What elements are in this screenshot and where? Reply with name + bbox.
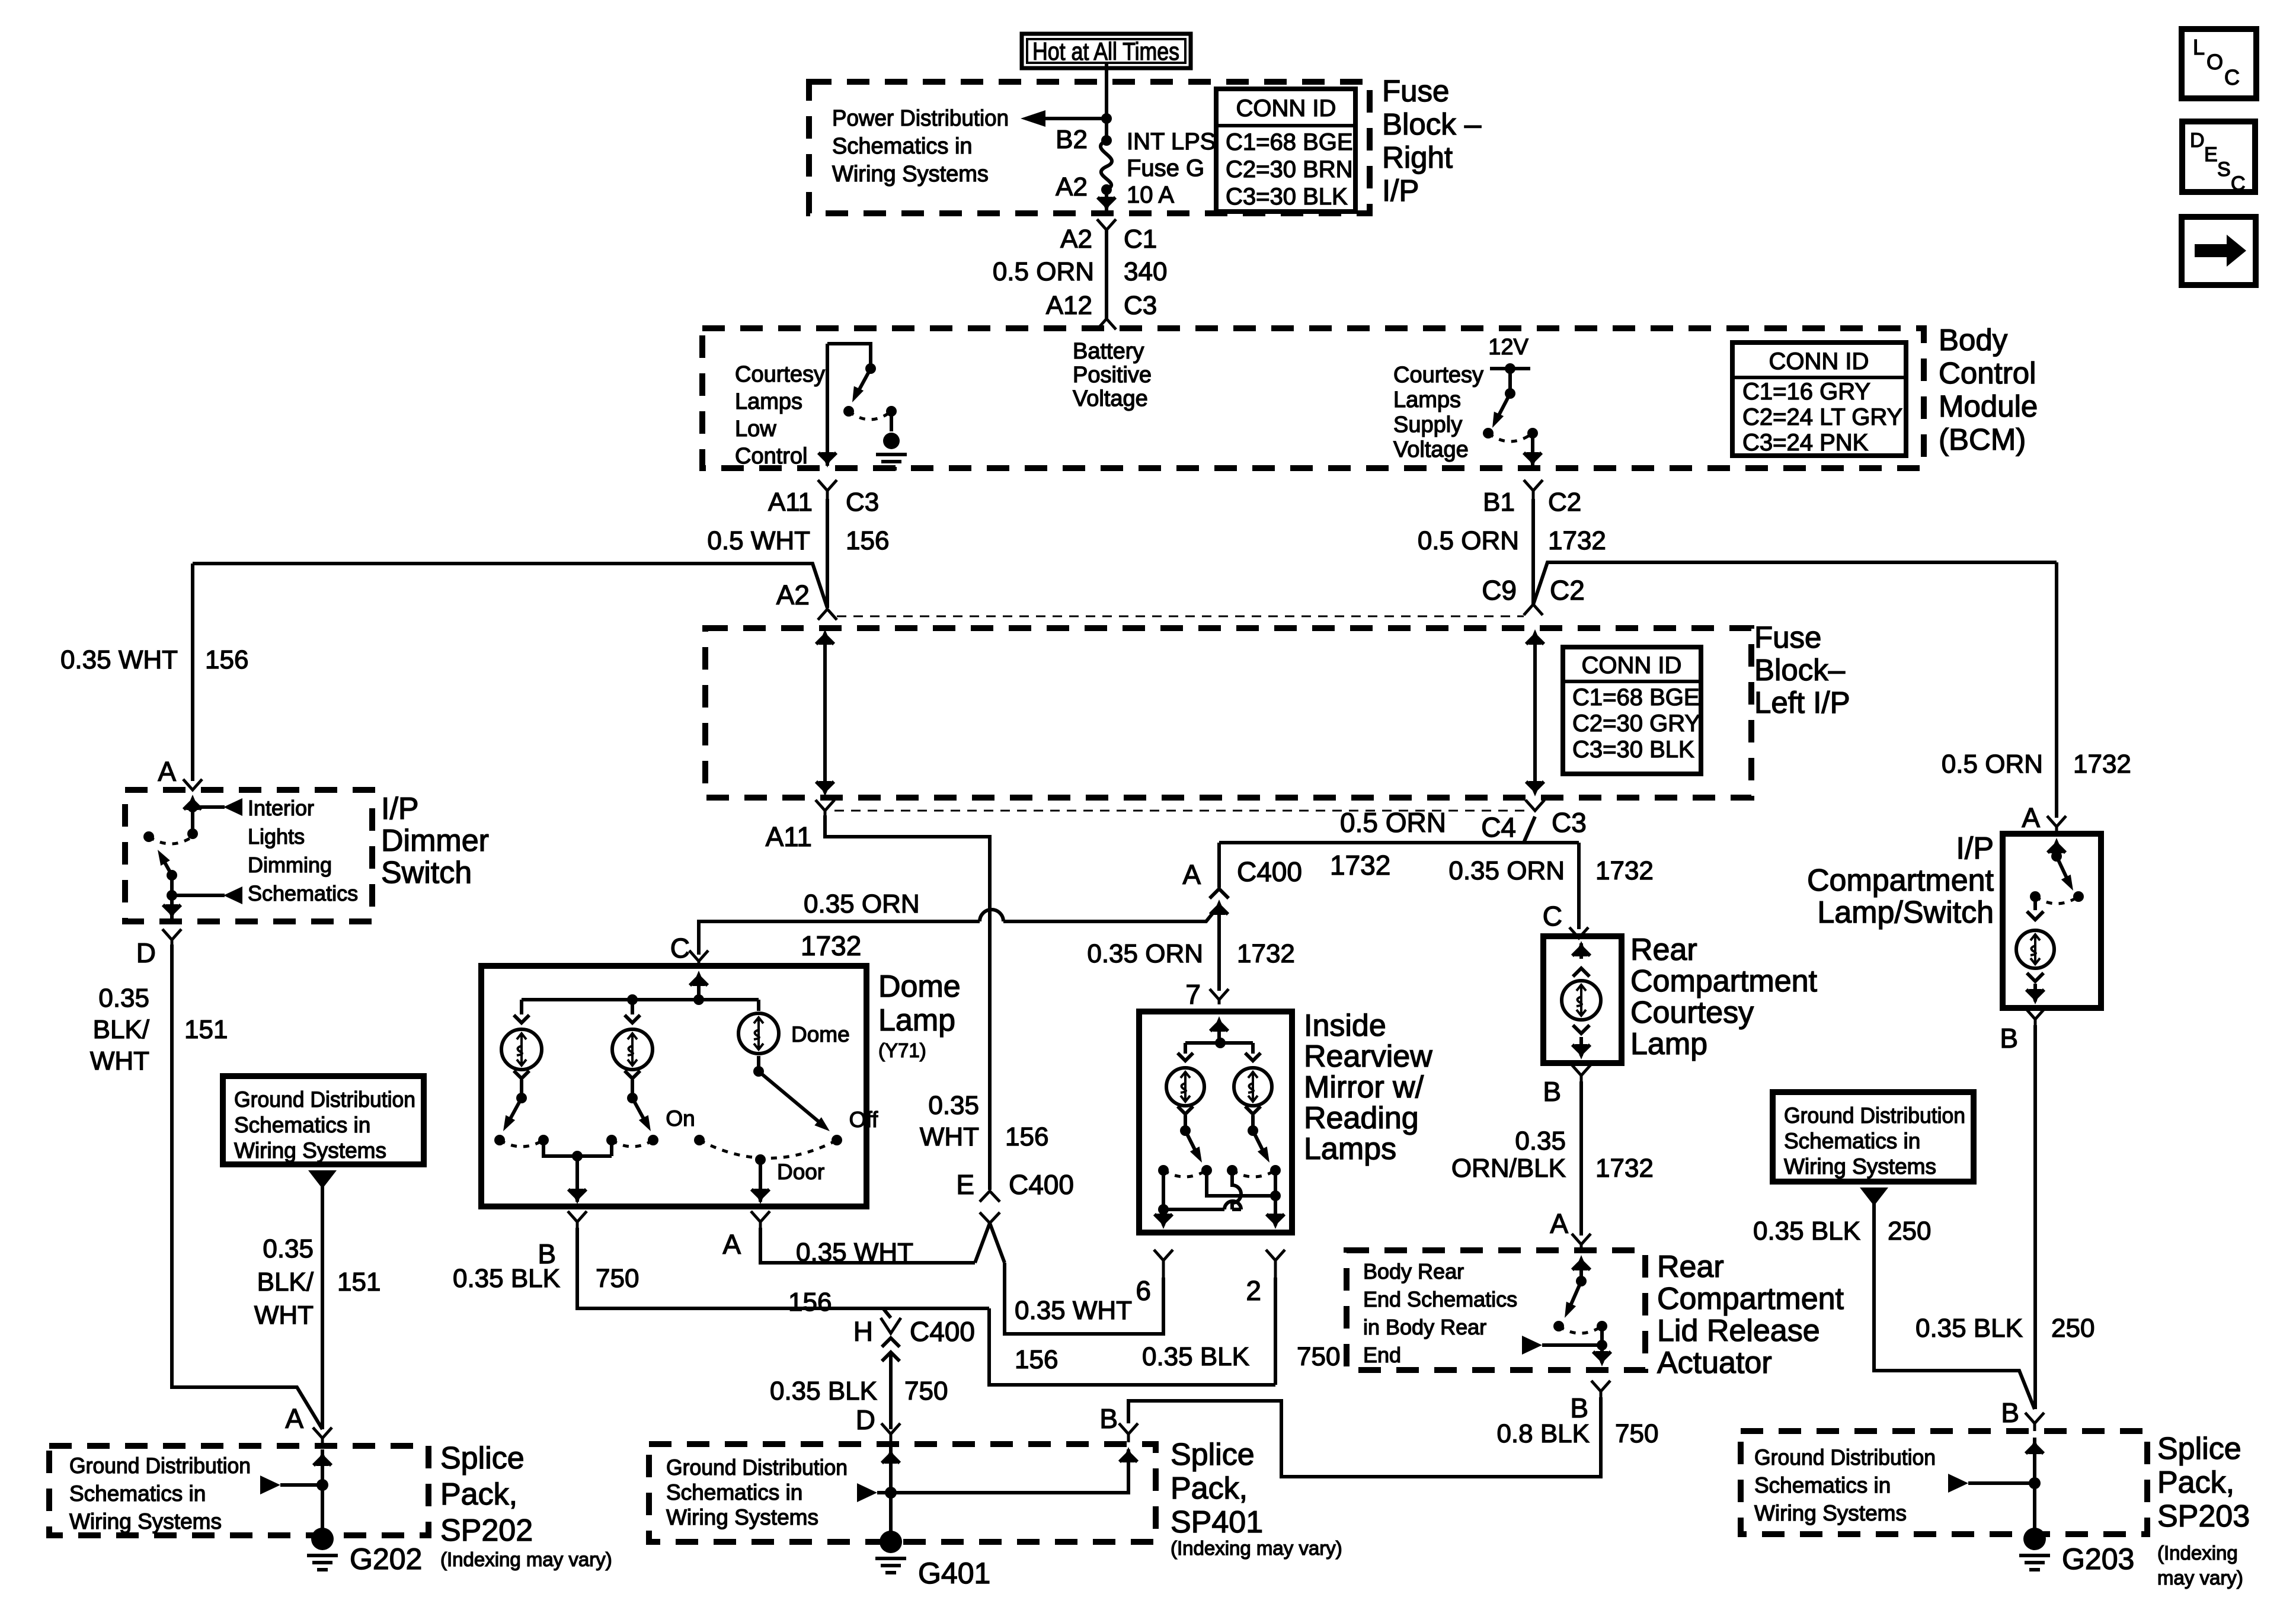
- connector: compartment lamp B (out): [2026, 1009, 2045, 1025]
- wire: 0.35 WHT 156 branch to dimmer switch: [193, 564, 827, 608]
- svg-text:Ground Distribution: Ground Distribution: [234, 1087, 415, 1112]
- svg-text:Fuse: Fuse: [1382, 74, 1449, 108]
- svg-text:Low: Low: [735, 417, 776, 441]
- svg-text:C1=16 GRY: C1=16 GRY: [1742, 379, 1870, 405]
- svg-text:1732: 1732: [1330, 850, 1390, 881]
- svg-text:Fuse G: Fuse G: [1127, 155, 1204, 181]
- svg-text:SP401: SP401: [1171, 1505, 1263, 1539]
- wire: to body rear end schematics (triangle): [1522, 1336, 1542, 1355]
- wire: 0.35 WHT to dome lamp A: [760, 1228, 975, 1263]
- wire: splice bus (SP203): [2033, 1438, 2036, 1536]
- svg-text:A2: A2: [1056, 172, 1088, 201]
- svg-text:Courtesy: Courtesy: [1630, 996, 1754, 1030]
- switch: lid release actuator switch: [1575, 1255, 1588, 1270]
- wire: splice bus: [321, 1449, 324, 1537]
- svg-text:Lights: Lights: [248, 824, 305, 849]
- svg-text:(BCM): (BCM): [1939, 422, 2026, 456]
- svg-text:750: 750: [1297, 1342, 1340, 1371]
- svg-text:Wiring Systems: Wiring Systems: [1784, 1154, 1936, 1179]
- svg-text:CONN ID: CONN ID: [1236, 95, 1336, 121]
- component box: Fuse Block - Left I/P: [705, 628, 1751, 798]
- svg-text:Courtesy: Courtesy: [735, 362, 825, 387]
- wire: dome lamp feed: [692, 971, 705, 986]
- wire: battery feed from Hot at All Times: [1105, 63, 1108, 140]
- component box: Fuse Block - Right I/P: [809, 82, 1370, 213]
- connector: BCM A11/C3 (out): [818, 480, 837, 499]
- svg-text:ORN/BLK: ORN/BLK: [1451, 1154, 1566, 1183]
- wire: 0.35 ORN 1732 to mirror pin 7: [1217, 843, 1221, 991]
- lamp: dome middle courtesy bulb: [631, 1000, 634, 1014]
- svg-text:B: B: [2001, 1397, 2019, 1428]
- svg-text:may vary): may vary): [2157, 1567, 2243, 1589]
- svg-text:Pack,: Pack,: [1171, 1471, 1248, 1506]
- svg-text:I/P: I/P: [1382, 174, 1419, 207]
- connector: mirror pin 7 (in): [1210, 989, 1229, 1004]
- svg-text:156: 156: [788, 1288, 832, 1317]
- component box: I/P Dimmer Switch: [125, 790, 372, 921]
- connector: fuse block left A2 (in): [818, 609, 837, 620]
- svg-text:Control: Control: [735, 444, 808, 469]
- svg-text:SP203: SP203: [2157, 1499, 2250, 1534]
- wire: pin 2 exit: [1274, 1170, 1277, 1225]
- component box: Body Control Module (BCM): [702, 328, 1924, 468]
- svg-text:SP202: SP202: [440, 1513, 533, 1548]
- svg-text:Positive: Positive: [1073, 363, 1152, 388]
- svg-text:Dimming: Dimming: [248, 853, 332, 877]
- svg-text:I/P: I/P: [381, 792, 419, 826]
- svg-text:750: 750: [1615, 1419, 1658, 1448]
- connector link dashed line (top): [837, 616, 1524, 617]
- svg-text:B: B: [1543, 1076, 1561, 1107]
- svg-text:C2=24 LT GRY: C2=24 LT GRY: [1742, 404, 1902, 430]
- wire: internal pass-through left (A2 to A11): [823, 635, 827, 792]
- svg-text:0.35: 0.35: [263, 1234, 314, 1263]
- wire: actuator ground exit: [1600, 1345, 1604, 1363]
- svg-text:750: 750: [904, 1377, 948, 1406]
- wire: internal pass-through right (C9 to C4): [1533, 635, 1537, 792]
- wire: pin 2 ground 0.35 BLK 750: [1274, 1278, 1277, 1385]
- wire: dimmer output: [170, 875, 174, 918]
- svg-text:156: 156: [1015, 1345, 1058, 1374]
- wire: dome internal bus: [522, 998, 759, 1001]
- switch: compartment lamp switch: [2050, 838, 2063, 853]
- connector: fuse block left C9/C2 (in): [1524, 604, 1543, 615]
- svg-text:C3: C3: [846, 488, 879, 517]
- svg-text:A: A: [2022, 802, 2040, 833]
- connector link dashed line (bottom): [834, 810, 1526, 812]
- svg-text:0.5 ORN: 0.5 ORN: [993, 257, 1094, 286]
- lamp: dome bulb: [757, 1000, 760, 1011]
- svg-text:CONN ID: CONN ID: [1582, 652, 1682, 678]
- svg-text:1732: 1732: [1595, 1154, 1654, 1183]
- component box: I/P Compartment Lamp/Switch: [2003, 834, 2101, 1008]
- svg-text:Schematics in: Schematics in: [666, 1480, 802, 1505]
- svg-text:Voltage: Voltage: [1073, 386, 1148, 411]
- svg-text:G203: G203: [2062, 1542, 2134, 1576]
- svg-text:G202: G202: [350, 1542, 422, 1576]
- connector: compartment lamp A (in): [2047, 816, 2066, 834]
- svg-text:Lamp: Lamp: [878, 1003, 955, 1038]
- svg-text:Splice: Splice: [1171, 1438, 1255, 1472]
- svg-text:0.35 BLK: 0.35 BLK: [770, 1377, 877, 1406]
- wire: ground ref to splice pack (0.35 BLK 250): [1860, 1188, 1888, 1206]
- svg-text:D: D: [2190, 129, 2205, 152]
- svg-text:0.35 WHT: 0.35 WHT: [60, 645, 178, 674]
- wire: 0.35 ORN/BLK 1732 to actuator A: [1579, 1081, 1583, 1235]
- svg-text:2: 2: [1246, 1275, 1261, 1306]
- svg-text:0.35 BLK: 0.35 BLK: [1916, 1314, 2023, 1343]
- svg-text:Rear: Rear: [1630, 933, 1697, 967]
- svg-text:Door: Door: [777, 1160, 824, 1184]
- svg-text:Mirror w/: Mirror w/: [1304, 1070, 1424, 1105]
- svg-text:C3=30 BLK: C3=30 BLK: [1226, 184, 1348, 210]
- svg-text:S: S: [2217, 158, 2231, 181]
- svg-text:Lamp: Lamp: [1630, 1027, 1707, 1061]
- svg-text:C4: C4: [1481, 812, 1516, 843]
- svg-text:End Schematics: End Schematics: [1363, 1287, 1517, 1311]
- svg-text:Left I/P: Left I/P: [1754, 686, 1850, 719]
- wire: other grounds (triangle SP401): [857, 1483, 877, 1502]
- svg-text:156: 156: [846, 526, 889, 555]
- connector: actuator B (out): [1591, 1381, 1610, 1397]
- svg-text:Fuse: Fuse: [1754, 620, 1821, 654]
- svg-text:Schematics in: Schematics in: [1754, 1473, 1891, 1497]
- svg-text:Pack,: Pack,: [2157, 1465, 2234, 1500]
- switch: courtesy lamps supply driver: [1490, 367, 1530, 370]
- wire: 0.35 BLK 250 to splice pack SP203: [2033, 1025, 2037, 1409]
- wire: other grounds (triangle): [260, 1475, 280, 1494]
- svg-text:C: C: [1543, 901, 1562, 932]
- component box: Splice Pack SP202: [49, 1446, 428, 1535]
- wire: contact1 to pin 6: [1162, 1170, 1165, 1209]
- label box: Hot at All Times: [1022, 34, 1191, 68]
- component box: Splice Pack SP401: [649, 1444, 1156, 1542]
- svg-text:in Body Rear: in Body Rear: [1363, 1315, 1486, 1339]
- connector: dimmer switch D (out): [162, 929, 181, 945]
- svg-text:A: A: [1550, 1208, 1568, 1239]
- svg-text:Hot at All Times: Hot at All Times: [1032, 37, 1179, 65]
- svg-text:E: E: [956, 1169, 974, 1200]
- svg-text:156: 156: [205, 645, 248, 674]
- svg-text:C3=24 PNK: C3=24 PNK: [1742, 430, 1869, 456]
- ground G401: [880, 1531, 902, 1553]
- svg-text:Interior: Interior: [248, 796, 314, 820]
- svg-text:340: 340: [1124, 257, 1167, 286]
- svg-text:A: A: [285, 1403, 303, 1434]
- svg-text:Reading: Reading: [1304, 1101, 1419, 1135]
- wire: to power distribution (arrow left): [1043, 117, 1107, 120]
- wire: 0.5 ORN 1732 down to fuse block left C9: [1531, 499, 1535, 604]
- svg-text:Ground Distribution: Ground Distribution: [69, 1454, 251, 1478]
- svg-text:Ground Distribution: Ground Distribution: [1784, 1103, 1965, 1128]
- legend box arrow: [2182, 217, 2256, 285]
- svg-text:A12: A12: [1046, 291, 1092, 320]
- svg-text:C400: C400: [910, 1316, 975, 1347]
- wire: 0.35 ORN 1732 to rear compartment lamp C: [1219, 817, 1579, 843]
- wire: 0.8 BLK 750 to splice pack B: [1128, 1397, 1601, 1477]
- label box: Ground Distribution Schematics in Wiring Systems (SP203): [1773, 1092, 1974, 1182]
- connector: dome lamp C (in): [689, 950, 708, 966]
- connector: BCM C1/C3 (in): [1097, 319, 1116, 329]
- svg-text:B: B: [1099, 1403, 1118, 1434]
- connector: fuse block left A11 (out): [816, 800, 834, 815]
- svg-text:A: A: [722, 1229, 741, 1260]
- component box: Inside Rearview Mirror w/ Reading Lamps: [1139, 1012, 1292, 1233]
- wire: 0.35 WHT 156 from fuse block A11: [825, 815, 990, 1190]
- svg-text:D: D: [856, 1404, 875, 1435]
- svg-text:(Indexing may vary): (Indexing may vary): [1171, 1537, 1342, 1559]
- wire: B leg up: [891, 1449, 1128, 1493]
- svg-text:Compartment: Compartment: [1657, 1282, 1844, 1316]
- svg-text:Splice: Splice: [440, 1441, 525, 1475]
- svg-text:G401: G401: [918, 1557, 990, 1590]
- svg-text:Actuator: Actuator: [1657, 1346, 1772, 1380]
- lamp: mirror right reading bulb: [1251, 1043, 1255, 1054]
- svg-text:156: 156: [1005, 1122, 1048, 1151]
- svg-text:C2: C2: [1550, 575, 1585, 606]
- wire: split to dome lamp A and mirror pin 6: [975, 1223, 1005, 1263]
- table: CONN ID (BCM): [1732, 343, 1906, 456]
- ground G203: [2023, 1528, 2046, 1550]
- svg-text:Voltage: Voltage: [1393, 437, 1469, 462]
- svg-text:Pack,: Pack,: [440, 1477, 517, 1512]
- svg-text:0.35 BLK: 0.35 BLK: [453, 1264, 560, 1293]
- svg-text:I/P: I/P: [1956, 831, 1994, 866]
- lamp: compartment bulb: [2033, 897, 2037, 910]
- svg-text:Block–: Block–: [1754, 653, 1846, 687]
- wire: fuse output arrow down: [1105, 190, 1108, 211]
- svg-text:A2: A2: [776, 580, 810, 610]
- svg-text:Lamps: Lamps: [735, 389, 802, 414]
- svg-text:Supply: Supply: [1393, 412, 1462, 437]
- svg-text:Wiring Systems: Wiring Systems: [234, 1138, 386, 1163]
- svg-text:0.35: 0.35: [98, 984, 149, 1013]
- table: CONN ID (fuse block right): [1216, 89, 1355, 212]
- table: CONN ID (fuse block left): [1563, 647, 1701, 774]
- wire: splice bus (SP401): [889, 1446, 893, 1542]
- svg-text:1732: 1732: [801, 930, 861, 961]
- connector: rear lamp B (out): [1572, 1065, 1591, 1081]
- ground: BCM internal: [883, 433, 900, 449]
- svg-text:0.35 WHT: 0.35 WHT: [1015, 1296, 1132, 1325]
- wire: other grounds (triangle SP203): [1948, 1474, 1968, 1493]
- connector: BCM B1/C2 (out): [1524, 480, 1543, 499]
- connector: mirror pin 2 (out): [1266, 1250, 1285, 1278]
- svg-text:C3: C3: [1124, 291, 1157, 320]
- svg-text:On: On: [666, 1106, 695, 1131]
- wire: pin 6 exit: [1162, 1209, 1165, 1225]
- switch: right reading lamp switch: [1253, 1131, 1266, 1157]
- wire: B return bus: [543, 1140, 612, 1156]
- wire: 0.35 ORN bus from dome lamp C: [699, 921, 980, 955]
- connector: dome lamp B (out): [568, 1211, 587, 1228]
- svg-text:0.5 ORN: 0.5 ORN: [1340, 807, 1446, 838]
- svg-text:0.5 ORN: 0.5 ORN: [1942, 750, 2043, 779]
- svg-text:C400: C400: [1237, 856, 1302, 887]
- svg-text:A2: A2: [1060, 225, 1092, 254]
- wire: door contact to A: [759, 1160, 762, 1202]
- svg-text:Wiring Systems: Wiring Systems: [69, 1509, 222, 1534]
- svg-text:Module: Module: [1939, 389, 2038, 423]
- svg-text:0.5 ORN: 0.5 ORN: [1418, 526, 1519, 555]
- svg-text:0.35 BLK: 0.35 BLK: [1142, 1342, 1249, 1371]
- svg-text:C: C: [2224, 65, 2240, 89]
- component box: Dome Lamp (Y71): [481, 966, 866, 1206]
- svg-text:Courtesy: Courtesy: [1393, 363, 1483, 388]
- svg-text:H: H: [853, 1316, 873, 1347]
- connector: dimmer switch A (in): [183, 779, 202, 790]
- svg-text:Compartment: Compartment: [1630, 964, 1818, 998]
- svg-text:151: 151: [337, 1267, 380, 1297]
- connector: mirror pin 6 (out): [1154, 1250, 1173, 1278]
- svg-text:Right: Right: [1382, 140, 1453, 174]
- switch: dome middle door switch: [632, 1098, 647, 1124]
- svg-text:12V: 12V: [1488, 335, 1528, 360]
- svg-text:Block –: Block –: [1382, 107, 1482, 141]
- svg-text:0.5 WHT: 0.5 WHT: [707, 526, 810, 555]
- connector: actuator A (in): [1572, 1234, 1591, 1250]
- svg-text:Rear: Rear: [1657, 1250, 1724, 1284]
- svg-text:C9: C9: [1482, 575, 1517, 606]
- lamp: dome left courtesy bulb: [520, 1000, 523, 1014]
- wire: 0.35 WHT 156 down to I/P dimmer switch: [191, 564, 194, 781]
- wire: 0.35 BLK/WHT 151 to splice pack A: [172, 945, 322, 1429]
- svg-text:Body Rear: Body Rear: [1363, 1259, 1464, 1283]
- svg-text:WHT: WHT: [254, 1301, 314, 1330]
- svg-text:Control: Control: [1939, 356, 2036, 390]
- switch contacts: door position: [694, 1135, 705, 1145]
- svg-text:CONN ID: CONN ID: [1769, 348, 1869, 375]
- svg-text:B1: B1: [1483, 488, 1515, 517]
- switch: courtesy lamps low control driver: [827, 344, 871, 367]
- svg-text:C1: C1: [1124, 225, 1157, 254]
- svg-text:Lamps: Lamps: [1393, 388, 1461, 412]
- svg-text:(Y71): (Y71): [878, 1039, 926, 1061]
- svg-text:BLK/: BLK/: [257, 1267, 314, 1297]
- svg-text:Lamp/Switch: Lamp/Switch: [1817, 895, 1994, 930]
- svg-text:E: E: [2204, 143, 2218, 166]
- connector: fuse block A2 (out): [1097, 219, 1116, 230]
- fuse G 10A INT LPS: [1101, 135, 1112, 146]
- legend box LOC: [2182, 29, 2256, 98]
- svg-text:750: 750: [596, 1264, 639, 1293]
- svg-text:Wiring Systems: Wiring Systems: [1754, 1501, 1907, 1525]
- svg-text:1732: 1732: [1548, 526, 1606, 555]
- svg-text:Splice: Splice: [2157, 1432, 2241, 1466]
- wire: from ground distribution triangle: [308, 1170, 337, 1189]
- svg-text:Battery: Battery: [1073, 339, 1144, 364]
- svg-text:0.35 BLK: 0.35 BLK: [1753, 1217, 1860, 1246]
- connector: splice pack SP202 A (in): [313, 1427, 332, 1445]
- wire: 0.5 ORN 340: [1105, 230, 1108, 319]
- connector: rear lamp C (in): [1569, 927, 1588, 938]
- svg-text:Schematics in: Schematics in: [832, 134, 973, 159]
- svg-text:End: End: [1363, 1343, 1401, 1367]
- svg-text:A: A: [1182, 859, 1201, 890]
- svg-text:(Indexing may vary): (Indexing may vary): [440, 1548, 612, 1570]
- connector: dome lamp A (out): [751, 1211, 770, 1228]
- svg-text:1732: 1732: [1237, 939, 1295, 968]
- svg-text:Schematics in: Schematics in: [1784, 1129, 1920, 1153]
- svg-text:C: C: [670, 933, 690, 964]
- svg-text:O: O: [2207, 50, 2223, 74]
- svg-text:0.35: 0.35: [928, 1091, 979, 1120]
- wire: 0.35 BLK 750 to splice pack D: [889, 1352, 893, 1429]
- svg-text:Dimmer: Dimmer: [381, 824, 489, 858]
- node: B+ junction: [1101, 113, 1112, 124]
- wire: 0.5 ORN 1732 down right side: [2055, 562, 2058, 818]
- svg-text:Schematics in: Schematics in: [69, 1481, 206, 1506]
- svg-text:1732: 1732: [1595, 856, 1654, 885]
- svg-text:C3=30 BLK: C3=30 BLK: [1572, 737, 1694, 763]
- svg-text:BLK/: BLK/: [93, 1015, 150, 1044]
- svg-text:10 A: 10 A: [1127, 182, 1174, 208]
- svg-text:Compartment: Compartment: [1807, 863, 1994, 898]
- svg-text:Inside: Inside: [1304, 1009, 1386, 1043]
- svg-text:C3: C3: [1552, 807, 1587, 838]
- svg-text:250: 250: [2051, 1314, 2094, 1343]
- svg-text:Body: Body: [1939, 323, 2008, 357]
- svg-text:A: A: [158, 756, 176, 787]
- connector: splice pack SP203 B (in): [2025, 1413, 2044, 1431]
- svg-text:B: B: [2000, 1023, 2018, 1054]
- svg-text:Lid Release: Lid Release: [1657, 1314, 1820, 1348]
- lamp: rear compartment courtesy bulb: [1579, 943, 1583, 959]
- svg-text:0.35 ORN: 0.35 ORN: [804, 889, 920, 918]
- svg-text:C: C: [2231, 172, 2246, 195]
- wire: dimmer feed in: [186, 795, 199, 810]
- svg-text:Dome: Dome: [791, 1022, 850, 1046]
- component box: Rear Compartment Courtesy Lamp: [1543, 936, 1622, 1063]
- svg-text:Ground Distribution: Ground Distribution: [1754, 1445, 1936, 1470]
- svg-text:WHT: WHT: [920, 1122, 979, 1151]
- svg-text:Switch: Switch: [381, 856, 472, 890]
- wire: contact2 to pin 2 line: [1207, 1170, 1275, 1196]
- svg-text:Dome: Dome: [878, 969, 961, 1004]
- svg-text:A11: A11: [768, 488, 813, 517]
- svg-text:Schematics: Schematics: [248, 881, 358, 905]
- svg-text:Ground Distribution: Ground Distribution: [666, 1455, 848, 1480]
- wire: 0.35 WHT to mirror pin 6: [1005, 1263, 1163, 1334]
- svg-text:C2=30 BRN: C2=30 BRN: [1226, 156, 1353, 183]
- svg-text:D: D: [136, 937, 156, 968]
- svg-text:250: 250: [1888, 1217, 1931, 1246]
- svg-text:C1=68 BGE: C1=68 BGE: [1226, 129, 1353, 155]
- component box: Rear Compartment Lid Release Actuator: [1347, 1250, 1645, 1370]
- svg-text:Lamps: Lamps: [1304, 1132, 1396, 1166]
- svg-text:Schematics in: Schematics in: [234, 1113, 370, 1137]
- svg-text:151: 151: [184, 1015, 228, 1044]
- svg-text:6: 6: [1136, 1275, 1151, 1306]
- label box: Ground Distribution Schematics in Wiring Systems (SP202): [223, 1076, 424, 1164]
- svg-text:1732: 1732: [2073, 750, 2131, 779]
- svg-text:C2=30 GRY: C2=30 GRY: [1572, 710, 1700, 737]
- switch: dimmer contact: [187, 828, 198, 839]
- wire: low control output: [826, 344, 829, 466]
- svg-text:Off: Off: [849, 1108, 878, 1132]
- component box: Splice Pack SP203: [1741, 1431, 2147, 1534]
- svg-text:WHT: WHT: [90, 1046, 149, 1076]
- svg-text:7: 7: [1185, 979, 1201, 1010]
- svg-text:Wiring Systems: Wiring Systems: [832, 162, 989, 187]
- wire: mirror feed: [1213, 1016, 1226, 1032]
- svg-text:A11: A11: [766, 821, 812, 852]
- wire: 0.35 BLK 750 from dome lamp B: [577, 1228, 1275, 1385]
- connector: splice pack SP401 D (in): [881, 1423, 900, 1442]
- svg-text:0.8 BLK: 0.8 BLK: [1496, 1419, 1590, 1448]
- svg-text:C400: C400: [1009, 1169, 1074, 1200]
- switch: dome 3-position (Off): [759, 1071, 824, 1126]
